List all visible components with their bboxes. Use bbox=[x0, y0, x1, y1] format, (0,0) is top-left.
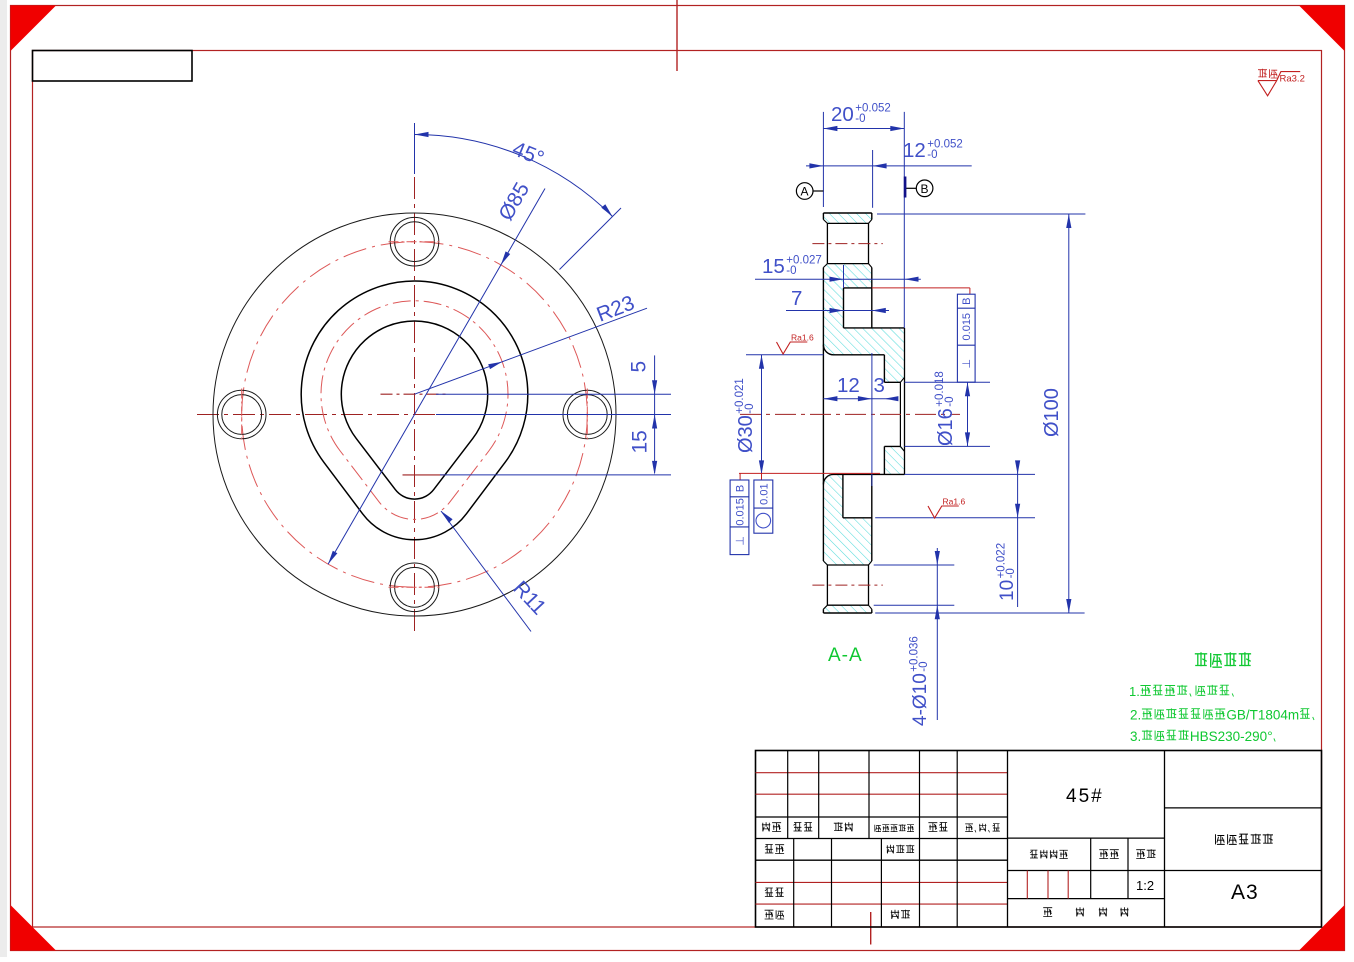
svg-text:Ø16: Ø16 bbox=[935, 408, 957, 446]
label biaoji bbox=[762, 822, 781, 831]
bore D30 end wall bbox=[883, 355, 885, 475]
dim D100 bbox=[875, 214, 1085, 613]
dim D30 +0.021 bbox=[734, 355, 764, 475]
dimension R23 leader bbox=[415, 308, 648, 394]
bottom bolt hole section bbox=[823, 561, 871, 609]
material 45# text bbox=[1066, 786, 1104, 807]
feature frame perpendicularity 0.015 B (left) bbox=[730, 480, 749, 555]
bore bottom / groove inner surface with fillet bbox=[823, 474, 904, 484]
cam center C1 tick bbox=[381, 393, 449, 395]
feature frame perpendicularity 0.015 B (right) bbox=[957, 294, 975, 382]
svg-text:5: 5 bbox=[628, 361, 651, 373]
extension line at C1 bbox=[436, 393, 671, 395]
svg-text:B: B bbox=[961, 298, 973, 305]
svg-text:A3: A3 bbox=[1231, 881, 1259, 904]
svg-text:Ra1.6: Ra1.6 bbox=[943, 497, 966, 507]
top bolt hole centerline bbox=[812, 243, 882, 245]
svg-text:-0: -0 bbox=[918, 661, 930, 671]
title block header line bbox=[756, 816, 1008, 818]
section top edge bbox=[823, 212, 871, 214]
label biaozhunhua bbox=[886, 845, 914, 854]
front view vertical centerline bbox=[414, 177, 416, 633]
svg-text:3: 3 bbox=[874, 374, 885, 397]
screen left edge strip bbox=[0, 0, 7, 957]
section hatch bottom region bbox=[823, 474, 904, 613]
label genggai bbox=[875, 824, 914, 831]
dim 12 +0.052 top bbox=[806, 139, 972, 208]
corner triangle bottom-right bbox=[1299, 905, 1345, 951]
tech req item 1 bbox=[1129, 684, 1234, 699]
top-left title strip box bbox=[33, 51, 193, 82]
svg-text:15: 15 bbox=[762, 255, 785, 278]
section label A-A bbox=[828, 645, 863, 666]
dim 12 / 3 bore depth bbox=[823, 353, 898, 486]
svg-text:Ø30: Ø30 bbox=[735, 415, 757, 453]
front view horizontal centerline bbox=[197, 414, 632, 416]
surface finish Ra1.6 bottom bbox=[928, 497, 965, 519]
svg-text:A: A bbox=[801, 185, 809, 199]
label shenhe bbox=[765, 888, 784, 897]
bore D16 walls bbox=[884, 377, 904, 451]
svg-text:10: 10 bbox=[997, 580, 1018, 601]
dimension R11 text bbox=[508, 577, 550, 620]
section hatch right slivers bbox=[884, 355, 904, 475]
svg-text:-0: -0 bbox=[944, 396, 956, 406]
cam pitch curve (red) bbox=[321, 301, 508, 520]
top centering mark bbox=[676, 0, 678, 71]
general surface note (other surfaces Ra3.2) bbox=[1258, 69, 1305, 96]
title block upper verticals bbox=[788, 751, 1008, 928]
svg-text:0.01: 0.01 bbox=[758, 483, 770, 504]
svg-text:3.: 3. bbox=[1130, 729, 1141, 744]
svg-text:4-Ø10: 4-Ø10 bbox=[910, 673, 931, 726]
svg-text:0.015: 0.015 bbox=[734, 498, 746, 526]
label pizhun bbox=[891, 910, 910, 919]
right section lines bbox=[1165, 751, 1322, 928]
section left face bbox=[822, 213, 824, 613]
bolt hole bottom center tick bbox=[389, 586, 441, 588]
title block line below design row bbox=[756, 859, 1008, 861]
dimension 45deg text bbox=[509, 137, 547, 170]
dimension 45deg arc bbox=[415, 132, 613, 217]
dim 20 +0.052 bbox=[823, 103, 904, 132]
tech requirements title bbox=[1195, 652, 1251, 667]
title block red line 4 bbox=[756, 903, 1008, 905]
dimension R11 leader bbox=[441, 511, 531, 632]
dim 10 +0.022 groove width bbox=[875, 460, 1035, 607]
svg-text:7: 7 bbox=[791, 287, 802, 310]
title block line below header bbox=[756, 838, 1008, 840]
bore D30 top wall with fillet bbox=[823, 345, 884, 355]
dimension R23 text bbox=[594, 291, 638, 326]
label jieduanbiaoji bbox=[1030, 850, 1068, 859]
label gong zhang di zhang bbox=[1043, 907, 1128, 916]
label chushu bbox=[794, 823, 813, 832]
corner triangle bottom-left bbox=[11, 905, 57, 951]
cam center C2 tick bbox=[403, 474, 445, 476]
dim D30 extension bbox=[746, 354, 823, 356]
bolt circle D85 centerline bbox=[242, 242, 588, 588]
material 45# cell line bbox=[1008, 837, 1165, 839]
dim 15 +0.027 (groove to face) bbox=[755, 255, 921, 288]
label fenqu bbox=[834, 822, 853, 831]
svg-text:1.: 1. bbox=[1129, 684, 1140, 699]
bolt hole bottom bbox=[390, 563, 439, 612]
section rim right face bbox=[871, 213, 873, 613]
bolt hole top bbox=[390, 217, 439, 266]
svg-text:-0: -0 bbox=[927, 149, 937, 161]
dimension D85 line bbox=[328, 189, 545, 565]
tech req item 2 bbox=[1130, 708, 1314, 723]
bolt hole left center tick bbox=[241, 389, 243, 441]
label qianzi bbox=[928, 823, 947, 832]
bolt hole right center tick bbox=[586, 389, 588, 441]
cam outer profile curve bbox=[301, 281, 528, 540]
dim 7 groove depth bbox=[786, 287, 889, 313]
bolt hole top center tick bbox=[389, 241, 441, 243]
corner triangle top-left bbox=[11, 6, 57, 52]
svg-text:45#: 45# bbox=[1066, 786, 1104, 807]
section bottom edge bbox=[823, 612, 871, 614]
dimension 15 text bbox=[629, 430, 652, 453]
dimension 45deg vertical leg bbox=[414, 123, 416, 174]
svg-text:12: 12 bbox=[837, 374, 860, 397]
svg-text:0.015: 0.015 bbox=[961, 313, 973, 341]
bolt hole left bbox=[217, 390, 266, 439]
svg-text:HBS230-290°: HBS230-290° bbox=[1190, 729, 1273, 744]
svg-text:B: B bbox=[921, 182, 929, 196]
stage sub cells red bbox=[1027, 871, 1068, 899]
tech req item 3 bbox=[1130, 729, 1275, 744]
label bili bbox=[1136, 849, 1156, 858]
scale 1:2 bbox=[1136, 878, 1154, 893]
title block red line 3 bbox=[756, 881, 1008, 883]
bottom centering mark bbox=[870, 912, 872, 945]
drawing title tuluo lingjiantu bbox=[1216, 834, 1274, 845]
svg-text:15: 15 bbox=[629, 430, 652, 453]
datum leader red to frames bbox=[739, 473, 880, 480]
stage row verticals bbox=[1008, 838, 1165, 899]
title block rev-row red line 1 bbox=[756, 772, 1008, 774]
label zhongliang bbox=[1099, 850, 1119, 859]
dim 4-D10 +0.036 bbox=[874, 548, 955, 726]
corner triangle top-right bbox=[1299, 6, 1345, 52]
label sheji bbox=[765, 845, 784, 854]
title block rev-row red line 2 bbox=[756, 793, 1008, 795]
svg-text:20: 20 bbox=[831, 103, 854, 126]
surface finish Ra1.6 top bbox=[777, 333, 814, 355]
label gongyi bbox=[765, 910, 785, 919]
feature frame circularity 0.01 bbox=[754, 480, 773, 533]
section main centerline bbox=[740, 413, 960, 415]
label nianyueri bbox=[965, 824, 1000, 833]
svg-text:⊥: ⊥ bbox=[961, 359, 973, 369]
section marker B datum bbox=[905, 177, 933, 198]
svg-text:2.: 2. bbox=[1130, 708, 1141, 723]
svg-text:Ra1.6: Ra1.6 bbox=[791, 333, 814, 343]
bolt hole right bbox=[563, 390, 612, 439]
svg-text:-0: -0 bbox=[1005, 568, 1017, 578]
datum leader red to perpendicularity frame bbox=[872, 288, 970, 294]
sheet size A3 bbox=[1231, 881, 1259, 904]
dimension 5-15 line bbox=[652, 355, 657, 475]
svg-text:-0: -0 bbox=[855, 113, 865, 125]
dimension 5 text bbox=[628, 361, 651, 373]
section marker A bbox=[796, 183, 823, 200]
svg-text:Ø100: Ø100 bbox=[1041, 388, 1063, 437]
bottom cam groove walls bbox=[843, 474, 872, 517]
top cam groove walls bbox=[844, 288, 905, 328]
svg-text:1:2: 1:2 bbox=[1136, 878, 1154, 893]
svg-text:-0: -0 bbox=[744, 403, 756, 413]
svg-text:GB/T1804m: GB/T1804m bbox=[1226, 708, 1299, 723]
extension line at C2 bbox=[440, 474, 671, 476]
svg-text:12: 12 bbox=[903, 139, 926, 162]
svg-text:-0: -0 bbox=[786, 265, 796, 277]
svg-text:A-A: A-A bbox=[828, 645, 863, 666]
title block lower verticals bbox=[794, 839, 958, 928]
hub right face bbox=[904, 328, 906, 475]
svg-text:⊥: ⊥ bbox=[734, 536, 746, 546]
cam inner profile curve bbox=[341, 321, 487, 499]
dim D16 +0.018 bbox=[905, 371, 991, 446]
top bolt hole section bbox=[823, 220, 871, 268]
dimension 45deg angled leg bbox=[560, 208, 622, 270]
bottom bolt hole centerline bbox=[812, 584, 882, 586]
outer circle D100 bbox=[213, 213, 616, 616]
extension line at center bbox=[436, 414, 671, 416]
dimension D85 text bbox=[494, 179, 534, 225]
title block outline bbox=[756, 751, 1322, 928]
section hatch top region bbox=[823, 213, 904, 355]
svg-text:B: B bbox=[735, 485, 747, 492]
dim 20 extension lines bbox=[823, 112, 904, 328]
svg-text:Ra3.2: Ra3.2 bbox=[1280, 74, 1305, 85]
